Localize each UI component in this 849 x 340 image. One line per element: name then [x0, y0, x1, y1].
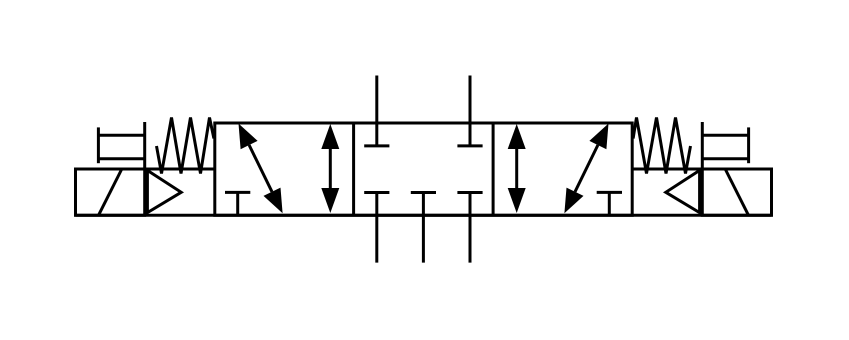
flow-path vertical arrow (left position) [321, 124, 339, 213]
solenoid coil box (right) [702, 169, 771, 215]
pilot section top edge (right) [632, 168, 702, 171]
flow-path vertical arrow (right position) [508, 124, 526, 213]
blocked port T (left position) [225, 192, 250, 215]
blocked port T bottom-right (centre position) [457, 191, 482, 194]
port line 1 (bottom centre) [422, 193, 425, 263]
manual override symbol (left) [98, 122, 144, 169]
pilot triangle (left) [147, 170, 181, 212]
blocked port T top-left (centre position) [364, 144, 389, 147]
flow-path diagonal arrow (right position) [564, 124, 608, 214]
position divider left [352, 123, 355, 215]
port line 2 (top right) [469, 76, 472, 146]
manual override symbol (right) [702, 122, 748, 169]
blocked port T (right position) [597, 192, 622, 215]
blocked port T bottom-left (centre position) [364, 191, 389, 194]
return spring (left) [157, 118, 214, 174]
return spring (right) [633, 118, 690, 174]
port line 3 (bottom right) [469, 193, 472, 263]
blocked port T bottom-centre (centre position) [411, 191, 436, 194]
blocked port T top-right (centre position) [457, 144, 482, 147]
port line 4 (top left) [375, 76, 378, 146]
common bottom edge line [76, 214, 772, 217]
valve body outline [215, 123, 632, 215]
flow-path diagonal arrow (left position) [239, 124, 283, 214]
solenoid coil box (left) [76, 169, 145, 215]
pilot triangle (right) [666, 170, 700, 212]
pilot section top edge (left) [145, 168, 215, 171]
port line 5 (bottom left) [375, 193, 378, 263]
position divider right [492, 123, 495, 215]
